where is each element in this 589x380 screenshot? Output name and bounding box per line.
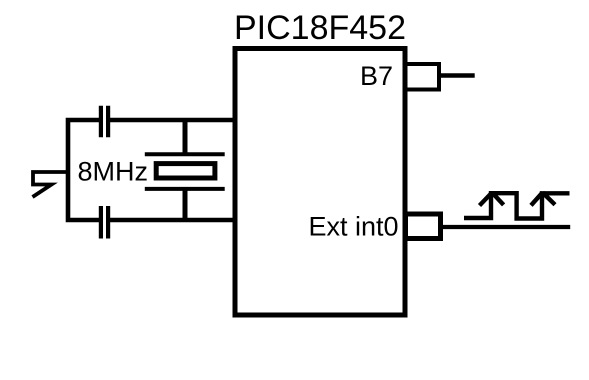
svg-text:Ext int0: Ext int0 <box>309 212 399 242</box>
svg-text:B7: B7 <box>360 61 393 91</box>
svg-text:PIC18F452: PIC18F452 <box>234 9 406 47</box>
svg-text:8MHz: 8MHz <box>78 157 149 187</box>
